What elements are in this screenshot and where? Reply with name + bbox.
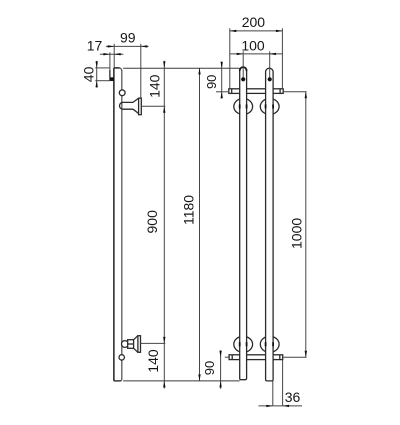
dimension 140 bottom	[145, 344, 166, 389]
svg-text:140: 140	[145, 349, 161, 373]
svg-text:90: 90	[202, 361, 217, 375]
upper rose right	[260, 99, 279, 115]
upper wall bracket	[119, 98, 141, 115]
lower small circle (screw)	[119, 355, 124, 360]
svg-text:140: 140	[147, 74, 163, 98]
svg-text:17: 17	[87, 38, 103, 54]
dimension 90 top	[204, 62, 229, 99]
svg-text:36: 36	[285, 389, 301, 405]
upper rose left	[234, 99, 253, 115]
dimension 1000	[283, 92, 307, 358]
svg-text:100: 100	[241, 38, 265, 54]
lower bracket bar	[229, 355, 283, 360]
lower wall bracket	[122, 336, 141, 353]
svg-text:90: 90	[204, 75, 219, 89]
svg-text:1180: 1180	[181, 195, 197, 225]
upper small circle (screw)	[119, 90, 125, 96]
dimension 200	[230, 14, 283, 89]
dimension 17	[87, 38, 124, 56]
dimension 1180	[181, 68, 201, 381]
extension line tube top to dims	[123, 67, 240, 69]
left tube cap emphasis	[240, 67, 247, 71]
lower rose right	[260, 336, 279, 352]
pin (electric lead) on left side of tube	[110, 52, 114, 81]
dimension 90 bottom	[202, 350, 229, 389]
svg-text:40: 40	[81, 66, 97, 82]
lower rose left	[234, 336, 253, 352]
svg-text:99: 99	[120, 29, 136, 45]
svg-text:1000: 1000	[288, 218, 304, 249]
tube profile side view	[114, 68, 122, 381]
dimension 140 top	[147, 61, 166, 344]
extension line bracket bottom center	[141, 342, 166, 344]
left tube front view	[240, 67, 247, 380]
svg-text:200: 200	[242, 14, 266, 30]
right tube front view	[266, 68, 274, 381]
dimension 100	[230, 38, 283, 56]
vent dot right tube	[268, 51, 272, 81]
dimension 40	[81, 61, 111, 88]
svg-text:900: 900	[144, 210, 160, 234]
extension line tube bottom to dims	[123, 380, 240, 382]
rose screw marks lower	[240, 342, 273, 346]
upper bracket bar	[229, 89, 283, 94]
dimension 36	[259, 360, 303, 407]
dimension 900	[144, 210, 165, 343]
rose screw marks upper	[240, 104, 273, 108]
vent dot left tube	[241, 51, 245, 81]
extension line bracket top center	[142, 105, 166, 107]
dimension 99	[106, 29, 149, 98]
